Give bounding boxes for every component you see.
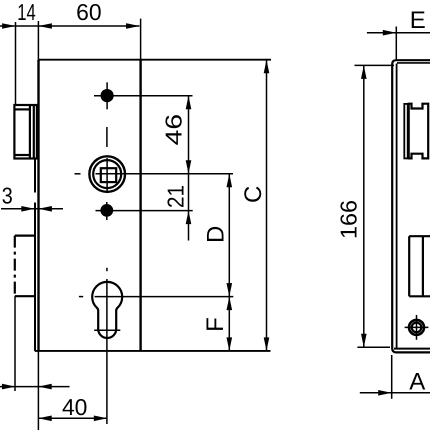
svg-text:60: 60 xyxy=(76,0,102,25)
dimension 166 xyxy=(355,65,395,347)
deadbolt box (front view, left) xyxy=(15,236,35,297)
latch flange plate (side view) xyxy=(404,104,407,158)
dimension 60 arrow right xyxy=(126,23,140,29)
dimension D / F vertical line xyxy=(228,174,230,351)
euro profile keyhole xyxy=(92,282,122,338)
svg-text:46: 46 xyxy=(161,114,187,146)
dimension 3 (left middle) xyxy=(1,208,63,210)
centerline dash above keyhole xyxy=(106,268,108,271)
svg-text:A: A xyxy=(409,369,425,396)
svg-text:40: 40 xyxy=(62,394,88,420)
svg-text:3: 3 xyxy=(2,182,13,208)
top hole crosshair xyxy=(106,82,108,109)
keyhole vertical centerline xyxy=(106,279,108,424)
dimension A (bottom right) xyxy=(360,392,430,394)
lock case outline (front view) xyxy=(35,60,271,351)
top fixing hole (filled) xyxy=(101,89,114,102)
screw hole (side view) xyxy=(409,320,424,335)
lower fixing hole (filled) xyxy=(100,204,113,217)
faceplate inner lines xyxy=(396,64,398,349)
svg-text:F: F xyxy=(202,317,229,332)
svg-text:166: 166 xyxy=(336,200,362,239)
dimension C vertical line xyxy=(266,60,268,351)
spindle follower circles xyxy=(89,156,125,192)
latch body spool (side view) xyxy=(409,104,429,159)
dimension 46 / 21 vertical line xyxy=(188,96,190,241)
dimension 14 (top) xyxy=(0,19,141,105)
dimension E (top right) xyxy=(367,32,430,34)
svg-text:D: D xyxy=(202,226,229,243)
dimension 40 (bottom) xyxy=(38,417,107,419)
keyhole crosshair xyxy=(79,296,83,298)
spindle square hole xyxy=(101,168,116,182)
svg-text:14: 14 xyxy=(17,0,36,25)
svg-text:E: E xyxy=(410,7,426,34)
centerline dash between top hole and spindle xyxy=(106,127,108,147)
deadbolt (side view) xyxy=(409,236,430,296)
bottom small dimension (faceplate) xyxy=(0,296,70,430)
latch box (front view, left) xyxy=(14,105,37,159)
svg-text:21: 21 xyxy=(162,185,188,208)
spindle crosshair xyxy=(75,173,81,175)
lower hole crosshair xyxy=(106,202,108,220)
faceplate front edge line xyxy=(34,159,36,193)
faceplate profile outer xyxy=(392,60,430,352)
svg-text:C: C xyxy=(240,186,267,203)
